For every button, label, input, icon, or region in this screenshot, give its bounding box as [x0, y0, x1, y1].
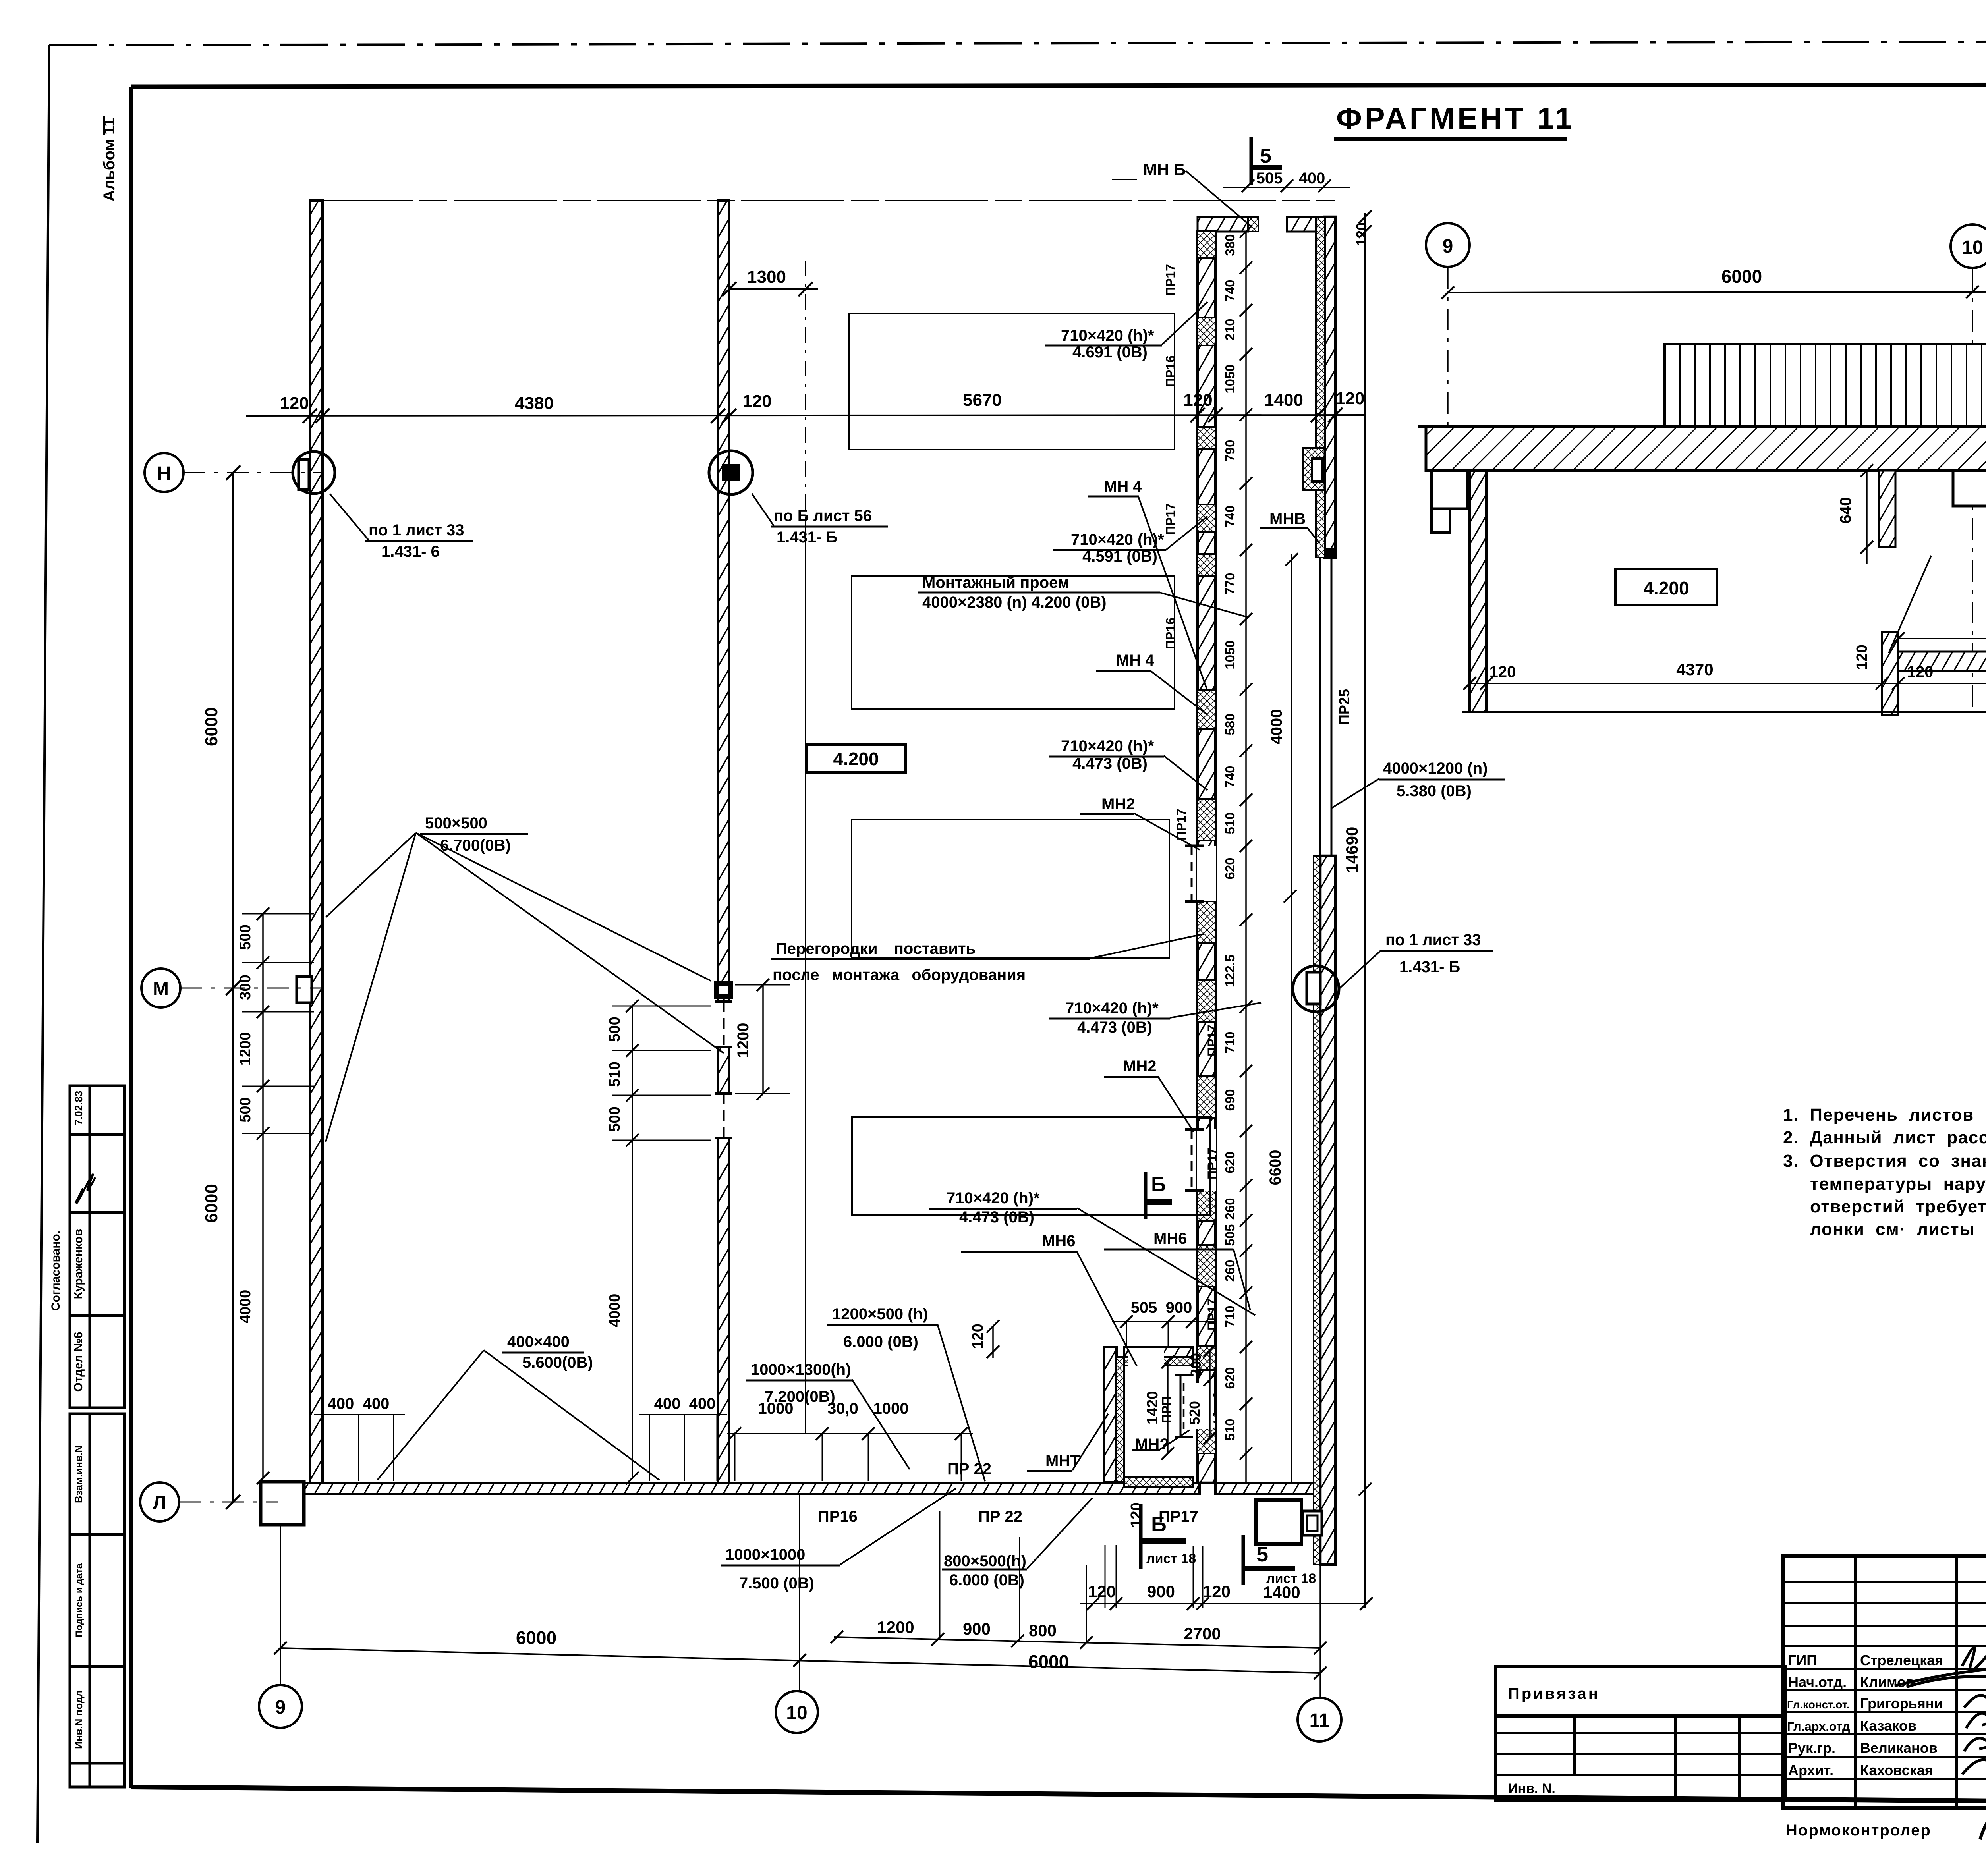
svg-text:1000×1300(h): 1000×1300(h)	[751, 1361, 851, 1378]
slab top line extension full	[1418, 425, 1986, 428]
4000 / 6600 inner chain	[1291, 554, 1292, 1483]
M-axis door block on left wall	[297, 977, 312, 1003]
svg-text:710×420 (h)*: 710×420 (h)*	[1061, 737, 1154, 755]
svg-text:1000: 1000	[873, 1400, 909, 1417]
svg-text:9: 9	[1443, 236, 1453, 257]
1200 opening dim at wall2	[762, 985, 764, 1094]
svg-text:по Б лист 56: по Б лист 56	[774, 507, 872, 525]
svg-text:ПР17: ПР17	[1174, 809, 1188, 840]
svg-text:6600: 6600	[1267, 1150, 1284, 1185]
svg-text:120: 120	[1353, 222, 1370, 246]
svg-text:400: 400	[689, 1395, 716, 1413]
signatures scribbles	[1895, 1631, 1986, 1774]
svg-text:2. Данный лист рассматрива: 2. Данный лист рассматривать совместно с…	[1783, 1128, 1986, 1147]
white box under slab at axis 10	[1953, 471, 1986, 506]
svg-text:1200: 1200	[877, 1618, 914, 1637]
svg-text:лонки см· листы марки 0: лонки см· листы марки 0В.	[1810, 1220, 1986, 1239]
axis circles left	[145, 453, 184, 492]
svg-text:740: 740	[1223, 280, 1237, 301]
svg-text:4380: 4380	[515, 394, 554, 413]
signature table grid	[1783, 1556, 1986, 1808]
svg-text:4000×1200 (n): 4000×1200 (n)	[1383, 760, 1488, 777]
svg-text:800×500(h): 800×500(h)	[944, 1552, 1026, 1570]
svg-text:Согласовано.: Согласовано.	[49, 1231, 62, 1311]
svg-text:Гл.конст.от.: Гл.конст.от.	[1787, 1698, 1850, 1711]
svg-text:120: 120	[280, 394, 309, 413]
svg-text:790: 790	[1223, 440, 1237, 461]
svg-text:300: 300	[237, 975, 254, 1000]
svg-text:ПР16: ПР16	[1163, 355, 1178, 387]
svg-text:Инв.N подл: Инв.N подл	[73, 1690, 85, 1749]
svg-text:Взам.инв.N: Взам.инв.N	[73, 1445, 85, 1503]
1300 dim	[729, 288, 818, 290]
svg-text:1. Перечень листов и общие: 1. Перечень листов и общие Указания см· …	[1783, 1105, 1986, 1125]
bottom 6000+6000 dim line	[280, 1648, 1320, 1673]
svg-text:120: 120	[1128, 1502, 1145, 1527]
svg-text:505: 505	[1223, 1224, 1237, 1246]
svg-text:30,0: 30,0	[827, 1400, 858, 1417]
svg-text:после монтажа оборудован: после монтажа оборудования	[773, 966, 1026, 984]
svg-text:ПР17: ПР17	[1205, 1148, 1219, 1179]
svg-text:500×500: 500×500	[425, 814, 487, 832]
svg-text:Л: Л	[153, 1492, 166, 1513]
svg-text:120: 120	[1907, 663, 1934, 681]
svg-text:5.380 (0В): 5.380 (0В)	[1397, 782, 1472, 800]
underlines for leader texts	[365, 345, 1505, 1569]
left beam block under slab	[1432, 471, 1467, 509]
svg-text:МН2: МН2	[1123, 1058, 1156, 1075]
svg-text:500: 500	[607, 1106, 623, 1131]
svg-text:6000: 6000	[516, 1627, 556, 1648]
4000 dim above low wall	[1898, 638, 1986, 639]
wall2 circle detail	[709, 451, 753, 494]
svg-text:620: 620	[1223, 1367, 1237, 1389]
505/900 dim at room top	[1112, 1321, 1215, 1322]
door openings (white) with dashed leaf on left corridor wall	[1197, 846, 1216, 901]
svg-text:ПР17: ПР17	[1159, 1508, 1198, 1525]
top break/cut dash line of plan	[310, 200, 1335, 201]
svg-text:Архит.: Архит.	[1788, 1762, 1833, 1778]
hanging partition with 640	[1879, 471, 1895, 547]
svg-text:Великанов: Великанов	[1860, 1740, 1938, 1756]
svg-text:120: 120	[1203, 1582, 1231, 1601]
svg-text:1200: 1200	[237, 1032, 254, 1066]
svg-text:Рук.гр.: Рук.гр.	[1788, 1740, 1835, 1756]
left wall (hatched)	[310, 201, 323, 1483]
svg-text:Б: Б	[1151, 1173, 1166, 1196]
svg-text:5: 5	[1256, 1542, 1268, 1566]
svg-text:120: 120	[742, 392, 771, 411]
svg-text:120: 120	[1088, 1582, 1116, 1601]
svg-text:120: 120	[1854, 645, 1870, 670]
svg-text:МН 4: МН 4	[1116, 652, 1154, 669]
svg-text:4000: 4000	[607, 1294, 623, 1328]
svg-text:620: 620	[1223, 1151, 1237, 1173]
svg-text:400×400: 400×400	[507, 1333, 570, 1351]
svg-text:Н: Н	[157, 463, 171, 484]
wall on axis with H: circle detail	[293, 452, 335, 494]
main frame	[131, 84, 1986, 87]
crosshatch opening segments on left corridor wall	[1198, 232, 1215, 1453]
svg-text:М: М	[153, 979, 169, 1000]
bottom axis circles	[259, 1685, 302, 1728]
svg-text:4000: 4000	[1268, 709, 1285, 745]
120/900/120/1400 dim line	[1080, 1603, 1366, 1604]
second wall (hatched)	[718, 201, 729, 1483]
svg-text:6.700(0В): 6.700(0В)	[440, 837, 511, 854]
svg-text:Инв. N.: Инв. N.	[1508, 1781, 1555, 1796]
svg-text:Кураженков: Кураженков	[72, 1229, 85, 1299]
svg-text:Григорьяни: Григорьяни	[1860, 1695, 1943, 1712]
outer top dash-dot border line	[49, 41, 1986, 45]
svg-text:620: 620	[1223, 857, 1237, 879]
svg-text:Монтажный проем: Монтажный проем	[922, 574, 1069, 591]
corridor right wall upper	[1325, 217, 1335, 558]
svg-text:770: 770	[1223, 573, 1237, 594]
svg-text:1.431- 6: 1.431- 6	[381, 543, 440, 560]
svg-text:Гл.арх.отд: Гл.арх.отд	[1787, 1720, 1850, 1733]
svg-text:отверстий требуется предусмо: отверстий требуется предусмотреть утепле…	[1810, 1197, 1986, 1216]
svg-text:500: 500	[607, 1017, 623, 1042]
svg-text:Отдел №6: Отдел №6	[72, 1332, 85, 1392]
svg-text:510: 510	[1223, 812, 1237, 834]
4.200 box	[1615, 569, 1717, 605]
svg-text:по 1 лист 33: по 1 лист 33	[1385, 931, 1481, 949]
svg-text:260: 260	[1223, 1260, 1237, 1282]
svg-text:120: 120	[1183, 390, 1212, 410]
niche on right wall	[1303, 448, 1325, 490]
svg-text:6000: 6000	[202, 707, 221, 746]
svg-text:2700: 2700	[1184, 1624, 1221, 1643]
svg-text:510: 510	[607, 1062, 623, 1087]
svg-text:9: 9	[275, 1697, 286, 1718]
svg-text:710×420 (h)*: 710×420 (h)*	[1071, 531, 1164, 548]
svg-text:505: 505	[1256, 170, 1283, 187]
svg-text:6000: 6000	[1028, 1651, 1069, 1672]
svg-text:580: 580	[1223, 713, 1237, 735]
svg-text:400: 400	[363, 1395, 390, 1413]
svg-text:120: 120	[1335, 389, 1364, 408]
svg-text:ФРАГМЕНТ 11: ФРАГМЕНТ 11	[1336, 102, 1575, 135]
section mark 5 (top)	[1250, 137, 1253, 185]
svg-text:7.02.83: 7.02.83	[73, 1091, 85, 1125]
section mark Б upper	[1144, 1172, 1148, 1219]
ribbed roof unit	[1665, 344, 1986, 427]
svg-text:5.600(0В): 5.600(0В)	[522, 1354, 593, 1371]
svg-text:740: 740	[1223, 505, 1237, 527]
svg-text:по 1 лист 33: по 1 лист 33	[369, 521, 464, 539]
4.200 level box	[806, 745, 906, 772]
svg-text:4.473 (0В): 4.473 (0В)	[1072, 755, 1148, 772]
svg-text:ПР16: ПР16	[818, 1508, 858, 1525]
svg-text:Казаков: Казаков	[1860, 1718, 1916, 1734]
svg-text:200: 200	[1188, 1353, 1204, 1377]
corridor right wall lower	[1320, 856, 1335, 1565]
svg-text:5670: 5670	[963, 390, 1002, 410]
svg-text:ПР25: ПР25	[1336, 689, 1352, 725]
svg-text:ПР17: ПР17	[1205, 1299, 1219, 1330]
room inner door PR17 dashed	[1192, 1383, 1213, 1429]
svg-text:900: 900	[1147, 1582, 1175, 1601]
svg-text:Подпись и дата: Подпись и дата	[74, 1563, 85, 1637]
svg-text:1420: 1420	[1144, 1391, 1161, 1425]
bottom wall	[304, 1483, 1200, 1494]
1200/900/800/2700 dim line	[834, 1637, 1320, 1648]
svg-text:710: 710	[1223, 1031, 1237, 1053]
svg-text:ПР 22: ПР 22	[978, 1508, 1022, 1525]
svg-text:лист 18: лист 18	[1146, 1551, 1196, 1566]
chain near wall2	[632, 1006, 633, 1478]
svg-text:ПРП: ПРП	[1159, 1396, 1174, 1423]
svg-text:400: 400	[328, 1395, 354, 1413]
axis circles	[1426, 223, 1470, 267]
svg-text:690: 690	[1223, 1089, 1237, 1111]
bottom dim line 120/4370/120/120/7190/120	[1470, 683, 1986, 684]
svg-text:1200×500 (h): 1200×500 (h)	[832, 1305, 928, 1323]
svg-text:Перегородки поставить: Перегородки поставить	[776, 940, 976, 957]
svg-text:лист 18: лист 18	[1266, 1571, 1316, 1586]
leader lines	[326, 302, 1381, 1569]
svg-text:Нормоконтролер: Нормоконтролер	[1786, 1822, 1931, 1839]
svg-text:400: 400	[1299, 170, 1325, 187]
svg-text:1.431- Б: 1.431- Б	[777, 529, 837, 546]
main horizontal dim line	[246, 415, 1366, 416]
svg-text:10: 10	[1962, 237, 1983, 258]
svg-text:ПР17: ПР17	[1205, 1025, 1219, 1056]
svg-text:380: 380	[1223, 234, 1237, 256]
svg-text:11: 11	[1310, 1710, 1330, 1731]
svg-text:520: 520	[1186, 1401, 1203, 1425]
svg-text:Стрелецкая: Стрелецкая	[1860, 1652, 1943, 1668]
roof slabs	[1426, 427, 1986, 471]
inspection circle on right wall	[1293, 966, 1339, 1012]
svg-text:МН2: МН2	[1101, 795, 1135, 813]
svg-text:ПР17: ПР17	[1163, 503, 1178, 535]
svg-text:3. Отверстия со знаком* вы: 3. Отверстия со знаком* выполняются толь…	[1783, 1151, 1986, 1171]
corridor vertical dim chain	[1245, 232, 1247, 1483]
svg-text:6000: 6000	[202, 1184, 221, 1223]
svg-text:4370: 4370	[1676, 660, 1713, 679]
right outer long dim line 14690	[1364, 213, 1366, 1608]
svg-text:4000×2380 (n) 4.200 (0В): 4000×2380 (n) 4.200 (0В)	[922, 594, 1107, 611]
svg-text:710×420 (h)*: 710×420 (h)*	[947, 1189, 1040, 1207]
svg-text:ПР17: ПР17	[1163, 264, 1178, 296]
section marks bottom	[1139, 1504, 1143, 1569]
svg-text:400: 400	[654, 1395, 681, 1413]
svg-text:10: 10	[786, 1702, 807, 1724]
svg-text:260: 260	[1223, 1198, 1237, 1220]
outer left border line	[37, 45, 49, 1843]
axis dash-dot verticals	[1447, 267, 1449, 469]
svg-text:120: 120	[1489, 663, 1516, 681]
svg-text:ГИП: ГИП	[1788, 1652, 1817, 1668]
svg-text:800: 800	[1029, 1621, 1057, 1640]
svg-text:122.5: 122.5	[1223, 955, 1237, 988]
svg-text:МН6: МН6	[1153, 1230, 1187, 1247]
svg-text:510: 510	[1223, 1419, 1237, 1440]
corridor left wall base strip	[1198, 232, 1215, 1483]
svg-text:1050: 1050	[1223, 640, 1237, 669]
svg-text:740: 740	[1223, 766, 1237, 787]
left column axis 9	[1470, 471, 1486, 712]
PR labels left of corridor wall	[1159, 264, 1219, 1423]
wall2 M-axis door	[714, 981, 733, 999]
right wall open segment (PR25 beam over opening)	[1319, 558, 1321, 856]
svg-text:ПР16: ПР16	[1163, 618, 1178, 649]
svg-text:210: 210	[1223, 318, 1237, 340]
svg-text:МНВ: МНВ	[1269, 510, 1306, 528]
svg-text:1000×1000: 1000×1000	[725, 1546, 805, 1563]
floor line	[1462, 711, 1986, 713]
svg-text:900: 900	[1166, 1299, 1192, 1316]
svg-text:4.200: 4.200	[1643, 578, 1689, 598]
svg-text:1400: 1400	[1264, 390, 1303, 410]
svg-text:6000: 6000	[1721, 266, 1762, 287]
svg-text:МН6: МН6	[1042, 1232, 1075, 1250]
svg-text:640: 640	[1837, 497, 1855, 524]
svg-text:7.500 (0В): 7.500 (0В)	[739, 1575, 814, 1592]
corner column box at L axis	[261, 1482, 304, 1525]
svg-text:4.473 (0В): 4.473 (0В)	[959, 1208, 1034, 1226]
svg-text:МН Б: МН Б	[1143, 160, 1186, 179]
svg-text:4.200: 4.200	[833, 749, 879, 769]
top dim line 6000+6000	[1448, 291, 1986, 293]
svg-text:4000: 4000	[237, 1290, 254, 1324]
leaders at low wall	[1889, 556, 1931, 653]
svg-text:ПР 22: ПР 22	[947, 1460, 991, 1478]
svg-text:710: 710	[1223, 1305, 1237, 1327]
wall2 opening with dashed leaf	[717, 1002, 731, 1047]
svg-text:505: 505	[1131, 1299, 1157, 1316]
svg-text:Каховская: Каховская	[1860, 1762, 1933, 1778]
svg-text:14690: 14690	[1343, 827, 1361, 873]
svg-text:МН 4: МН 4	[1104, 478, 1142, 495]
svg-text:1000: 1000	[758, 1400, 794, 1417]
equipment boxes below bottom wall	[1256, 1500, 1301, 1544]
svg-text:5: 5	[1260, 145, 1271, 168]
top 505/400 dims	[1223, 187, 1350, 188]
svg-text:1200: 1200	[734, 1023, 752, 1058]
svg-text:500: 500	[237, 924, 254, 950]
low wall	[1882, 632, 1898, 715]
svg-text:4.473 (0В): 4.473 (0В)	[1077, 1019, 1152, 1036]
svg-text:температуры наружного воз: температуры наружного воздуха - 40°С. Дл…	[1810, 1174, 1986, 1194]
signature squiggle in left stamp	[75, 1175, 95, 1204]
inner chain near left wall	[262, 914, 264, 1478]
svg-text:1300: 1300	[747, 267, 786, 287]
svg-text:710×420 (h)*: 710×420 (h)*	[1061, 327, 1154, 344]
svg-text:6.000 (0В): 6.000 (0В)	[949, 1571, 1024, 1589]
svg-text:120: 120	[970, 1324, 986, 1349]
svg-text:1050: 1050	[1223, 364, 1237, 393]
svg-text:500: 500	[237, 1097, 254, 1122]
svg-text:Нач.отд.: Нач.отд.	[1788, 1674, 1847, 1690]
corridor top wall	[1198, 217, 1248, 232]
left vertical dim 6000/6000	[232, 473, 234, 1502]
svg-text:Привязан: Привязан	[1508, 1685, 1600, 1702]
svg-text:6.000 (0В): 6.000 (0В)	[843, 1333, 918, 1351]
privyazan table	[1496, 1666, 1785, 1801]
svg-text:900: 900	[963, 1619, 991, 1638]
svg-text:710×420 (h)*: 710×420 (h)*	[1065, 1000, 1159, 1017]
svg-text:1.431- Б: 1.431- Б	[1399, 958, 1460, 976]
